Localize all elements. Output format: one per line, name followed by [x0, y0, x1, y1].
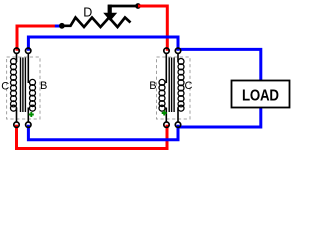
- T2 terminal top-left: [164, 48, 169, 53]
- node junction dot left of D: [59, 23, 65, 29]
- wire red top-left from T1 to potentiometer: [17, 26, 58, 51]
- wire black wiper to dot: [108, 5, 138, 8]
- plus mark green T2: [162, 111, 167, 116]
- transformer T2 dashed box: [157, 57, 191, 119]
- T1 winding B loops: [30, 79, 36, 111]
- T1 winding B lead wires: [27, 53, 29, 122]
- wire red from dot down to T2 top-left: [138, 6, 167, 51]
- wire blue top from T1 top-right to T2 top-right: [28, 37, 178, 51]
- wire blue LOAD bottom to T2 bottom-right: [180, 108, 261, 128]
- T1 terminal top-left: [14, 48, 19, 53]
- transformer T1 dashed box: [7, 57, 40, 119]
- svg-text:LOAD: LOAD: [242, 88, 279, 105]
- T1 winding C lead wires: [16, 53, 18, 122]
- T2 core lines: [169, 58, 174, 113]
- T2 winding C loops: [178, 59, 184, 112]
- svg-text:C: C: [185, 80, 193, 92]
- LOAD box: [232, 81, 290, 108]
- wire red bottom from T1 bottom-left to T2 bottom-left: [17, 125, 168, 149]
- svg-text:C: C: [1, 81, 9, 93]
- svg-text:B: B: [40, 80, 47, 92]
- T2 winding B lead wires: [165, 53, 167, 122]
- wire blue from T2 top-right to LOAD top: [180, 49, 261, 80]
- T1 terminal bottom-left: [14, 122, 19, 127]
- T1 terminal top-right: [26, 48, 31, 53]
- plus mark green T1: [29, 112, 34, 117]
- T2 winding C lead wires: [177, 53, 179, 122]
- wiper arrow of D: [103, 13, 117, 21]
- T1 winding C loops: [11, 59, 17, 112]
- T1 terminal bottom-right: [26, 122, 31, 127]
- svg-text:B: B: [149, 80, 156, 92]
- resistor D zigzag: [62, 18, 131, 28]
- wire blue bottom from T1 bottom-right to T2 bottom-right: [28, 125, 178, 140]
- T1 core lines: [21, 58, 26, 113]
- T2 terminal top-right: [175, 48, 180, 53]
- node junction dot right of D: [135, 3, 141, 9]
- wire blue stub left of junction dot: [55, 25, 60, 28]
- T2 terminal bottom-right: [175, 122, 180, 127]
- T2 terminal bottom-left: [164, 122, 169, 127]
- T2 winding B loops: [159, 79, 165, 111]
- svg-text:D: D: [83, 5, 92, 19]
